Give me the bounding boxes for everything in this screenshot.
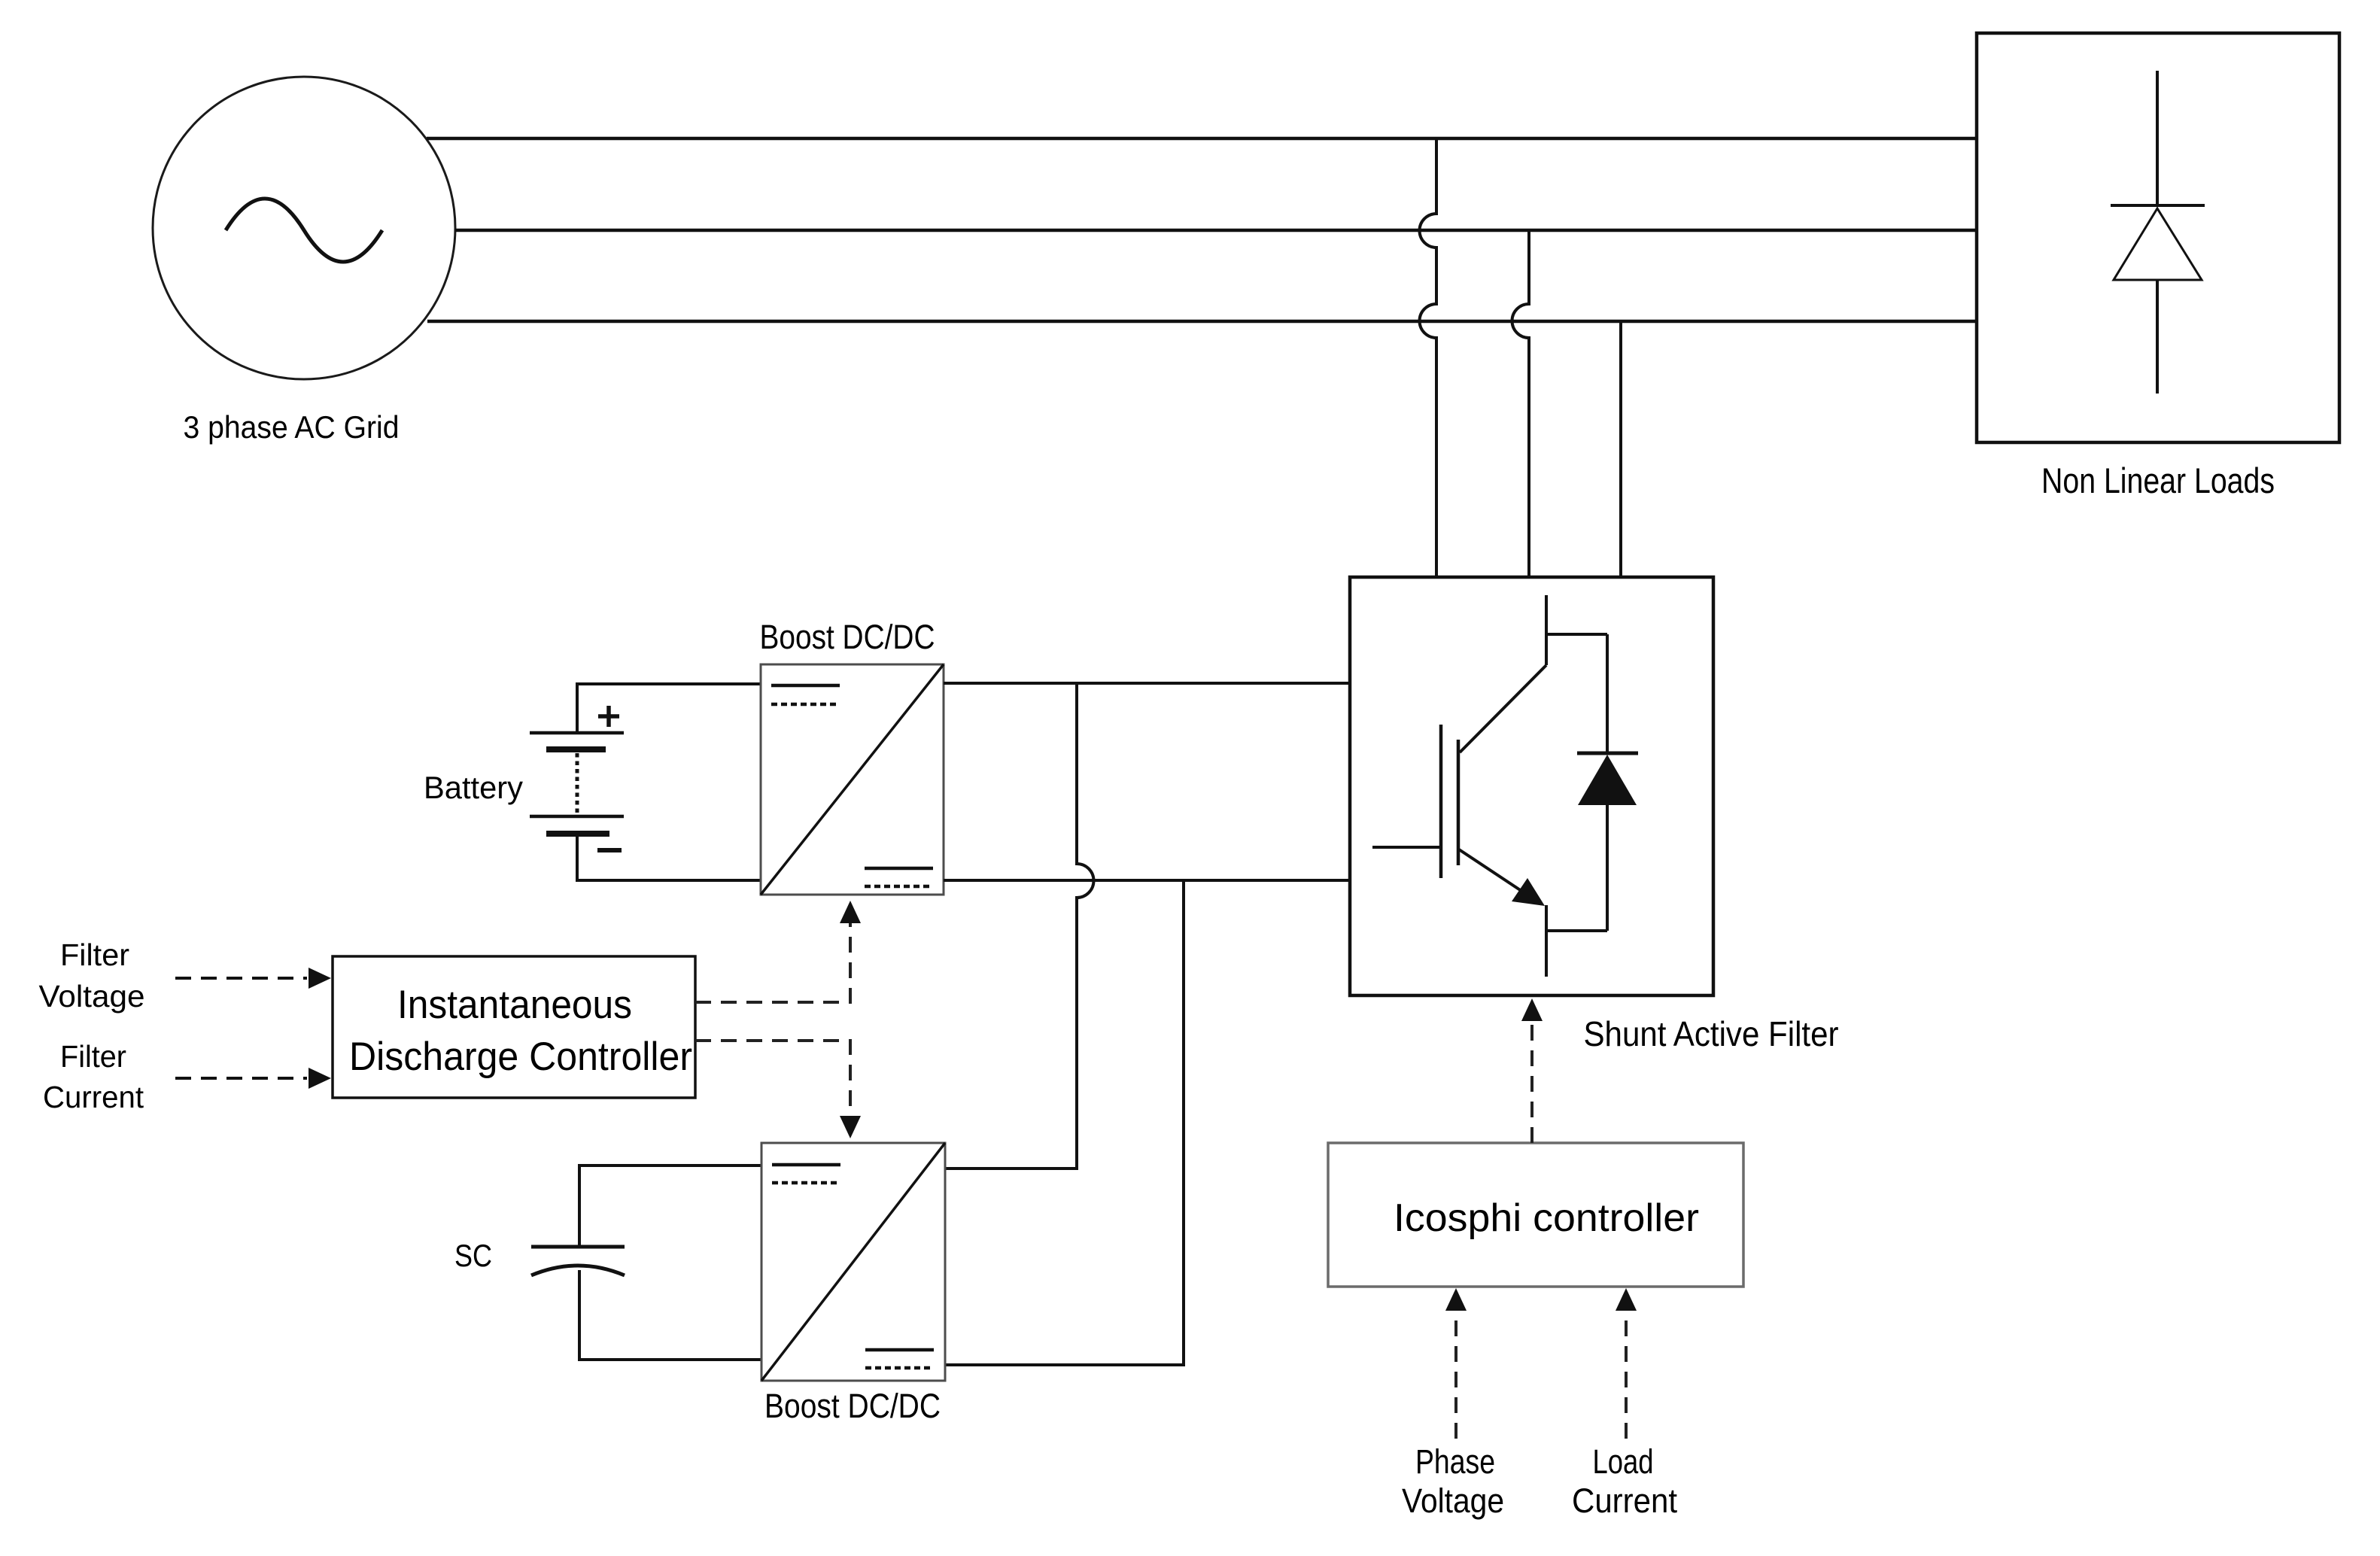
wire: tap phase A down to filter (hops over B and C) (1420, 138, 1437, 577)
wire: boost2 top output to DC bus (hops over bottom bus) (945, 683, 1094, 1169)
wire: tap phase B down to filter (hops over C) (1512, 230, 1530, 577)
wire: boost2 bottom output to DC bus (945, 880, 1184, 1365)
svg-text:SC: SC (454, 1238, 492, 1273)
wire: tap phase C down to filter (1619, 321, 1622, 577)
svg-text:Current: Current (1572, 1482, 1677, 1520)
svg-text:Filter: Filter (60, 938, 129, 972)
svg-text:Voltage: Voltage (1402, 1482, 1504, 1520)
dashed link: controller to boost1 (arrow up) (695, 922, 850, 1002)
svg-text:Battery: Battery (424, 770, 523, 805)
svg-text:3 phase AC Grid: 3 phase AC Grid (184, 409, 400, 445)
svg-text:Boost DC/DC: Boost DC/DC (760, 618, 935, 656)
Non Linear Loads box (1977, 33, 2339, 442)
sine wave symbol (226, 199, 382, 262)
dashed arrow: filter voltage input (175, 977, 307, 980)
svg-text:Instantaneous: Instantaneous (397, 983, 632, 1027)
battery symbol (530, 733, 624, 834)
Instantaneous Discharge Controller box (333, 956, 695, 1098)
svg-text:Phase: Phase (1415, 1442, 1495, 1481)
dashed arrow: Icosphi controller to Shunt Active Filter (1530, 1020, 1533, 1143)
wire: SC bottom to boost2 (579, 1270, 761, 1360)
wire: SC top to boost2 (579, 1165, 761, 1247)
wire: battery minus to boost1 (577, 834, 761, 880)
diode D1 inside load box (2111, 71, 2205, 394)
wire: phase line B (middle) (455, 229, 1977, 232)
svg-text:Voltage: Voltage (39, 979, 145, 1014)
svg-text:Icosphi controller: Icosphi controller (1394, 1196, 1699, 1240)
dashed arrow: filter current input (175, 1077, 307, 1080)
wire: battery plus to boost1 (577, 684, 761, 733)
supercap SC symbol (531, 1247, 625, 1275)
transistor Q1 (IGBT) inside filter (1372, 595, 1607, 977)
Boost DC/DC converter 2 box (761, 1143, 945, 1381)
Boost DC/DC converter 1 box (761, 664, 944, 895)
svg-text:Shunt Active Filter: Shunt Active Filter (1584, 1014, 1839, 1053)
svg-text:Discharge Controller: Discharge Controller (349, 1035, 692, 1079)
label: - terminal (597, 848, 622, 852)
wire: phase line C (bottom) (427, 320, 1977, 324)
Shunt Active Filter box (1350, 577, 1713, 995)
svg-text:Non Linear Loads: Non Linear Loads (2041, 460, 2275, 500)
wire: DC bus bottom (944, 879, 1350, 882)
AC source circle (3 phase AC Grid) (153, 77, 455, 379)
dashed arrow: phase voltage input (1454, 1310, 1457, 1439)
Icosphi controller box (1328, 1143, 1743, 1287)
svg-text:Filter: Filter (60, 1039, 126, 1074)
DC/DC symbol marks converter 1 (771, 685, 933, 886)
dashed link: controller to boost2 (arrow down) (695, 1041, 850, 1117)
wire: phase line A (top) (427, 137, 1977, 141)
svg-text:Load: Load (1593, 1442, 1654, 1481)
diode D2 (freewheeling) inside filter (1577, 634, 1638, 931)
label: + terminal (598, 706, 619, 727)
wire: DC bus top (944, 682, 1350, 685)
svg-text:Current: Current (43, 1080, 144, 1114)
dashed arrow: load current input (1625, 1310, 1628, 1439)
svg-text:Boost DC/DC: Boost DC/DC (764, 1387, 941, 1425)
DC/DC symbol marks converter 2 (772, 1165, 934, 1368)
